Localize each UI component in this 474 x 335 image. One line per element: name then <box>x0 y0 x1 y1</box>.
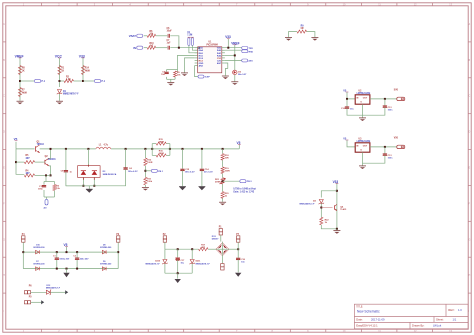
svg-text:220u 25V: 220u 25V <box>80 258 89 260</box>
svg-text:TITLE:: TITLE: <box>356 306 363 308</box>
svg-text:LM7812-HRE: LM7812-HRE <box>357 93 371 95</box>
svg-text:10R: 10R <box>225 157 229 159</box>
svg-text:1K: 1K <box>61 70 64 72</box>
svg-text:H: H <box>469 274 471 277</box>
svg-text:G: G <box>3 238 5 241</box>
svg-text:1500u 25V: 1500u 25V <box>59 258 70 260</box>
svg-text:D8: D8 <box>103 244 105 246</box>
svg-text:280R: 280R <box>159 153 165 155</box>
svg-text:D: D <box>3 131 5 134</box>
svg-text:PB.3: PB.3 <box>247 181 253 183</box>
svg-text:RXD: RXD <box>249 51 254 53</box>
svg-text:D9: D9 <box>103 261 105 263</box>
svg-text:G: G <box>469 238 471 241</box>
svg-text:H: H <box>3 274 5 277</box>
svg-text:C: C <box>3 95 5 98</box>
svg-text:1uF: 1uF <box>167 43 172 45</box>
svg-text:D7: D7 <box>36 261 38 263</box>
svg-text:5V0: 5V0 <box>394 90 399 92</box>
svg-text:C: C <box>469 95 471 98</box>
svg-text:100u 6.3V: 100u 6.3V <box>185 171 195 173</box>
svg-text:100n: 100n <box>388 158 394 160</box>
svg-text:100k: 100k <box>147 181 153 183</box>
svg-text:C2O: C2O <box>217 61 222 63</box>
svg-text:V50: V50 <box>394 138 399 140</box>
svg-text:7.3M: 7.3M <box>187 35 192 37</box>
svg-text:TXD: TXD <box>249 48 254 50</box>
svg-text:D: D <box>469 131 471 134</box>
svg-text:V5: V5 <box>14 137 18 141</box>
svg-text:1.2K: 1.2K <box>66 79 71 81</box>
svg-text:100n: 100n <box>38 188 44 190</box>
svg-text:C1O: C1O <box>217 58 222 60</box>
svg-text:1K: 1K <box>22 70 25 72</box>
svg-text:10uF: 10uF <box>167 31 173 33</box>
svg-text:100n: 100n <box>388 110 394 112</box>
svg-text:0R: 0R <box>301 28 304 30</box>
svg-text:Blu 0.07: Blu 0.07 <box>238 74 247 76</box>
svg-text:BYW80-200: BYW80-200 <box>34 263 46 265</box>
svg-text:GND: GND <box>199 63 204 65</box>
svg-text:DZ10: DZ10 <box>155 260 161 262</box>
svg-text:ICSP: ICSP <box>205 77 211 79</box>
svg-text:100u 6.3V: 100u 6.3V <box>128 171 138 173</box>
svg-text:D10: D10 <box>36 244 39 246</box>
svg-text:200R: 200R <box>215 182 221 184</box>
svg-text:280R: 280R <box>159 141 165 143</box>
svg-text:BYW80-200: BYW80-200 <box>34 247 46 249</box>
svg-text:VDD: VDD <box>217 48 222 50</box>
svg-text:New Schematic: New Schematic <box>357 310 380 314</box>
svg-text:LM7812-HRE: LM7812-HRE <box>357 141 371 143</box>
svg-text:100R: 100R <box>147 162 153 164</box>
svg-text:BYW80-200: BYW80-200 <box>100 247 112 249</box>
svg-text:BYW80-200: BYW80-200 <box>100 263 112 265</box>
svg-text:100R: 100R <box>225 171 231 173</box>
svg-text:DB107: DB107 <box>212 239 219 241</box>
svg-text:PB.1: PB.1 <box>158 171 164 173</box>
